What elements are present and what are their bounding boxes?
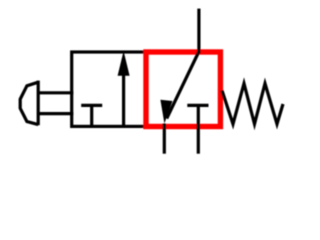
port 2 line (top) bbox=[197, 9, 200, 54]
port 3 line (bottom right) bbox=[197, 127, 200, 154]
blocked port T left box: stem bbox=[90, 105, 93, 127]
actuator base plate bbox=[37, 81, 40, 126]
actuator stem upper line bbox=[39, 91, 73, 94]
mushroom actuator cap bbox=[20, 82, 38, 124]
diagonal flow arrow right box: shaft bbox=[167, 52, 199, 119]
actuator stem lower line bbox=[39, 112, 73, 115]
red active position highlight box bbox=[146, 52, 220, 127]
port 1 line (bottom left) bbox=[163, 124, 166, 154]
flow arrow left box: head bbox=[118, 51, 130, 76]
valve left position box bbox=[72, 52, 146, 126]
diagonal flow arrow right box: head bbox=[160, 100, 172, 124]
return spring bbox=[222, 84, 283, 125]
blocked port T left box: crossbar bbox=[81, 104, 102, 107]
blocked port T right box: crossbar bbox=[187, 104, 208, 107]
blocked port T right box: stem bbox=[197, 105, 200, 130]
flow arrow left box: stem bbox=[122, 72, 125, 126]
